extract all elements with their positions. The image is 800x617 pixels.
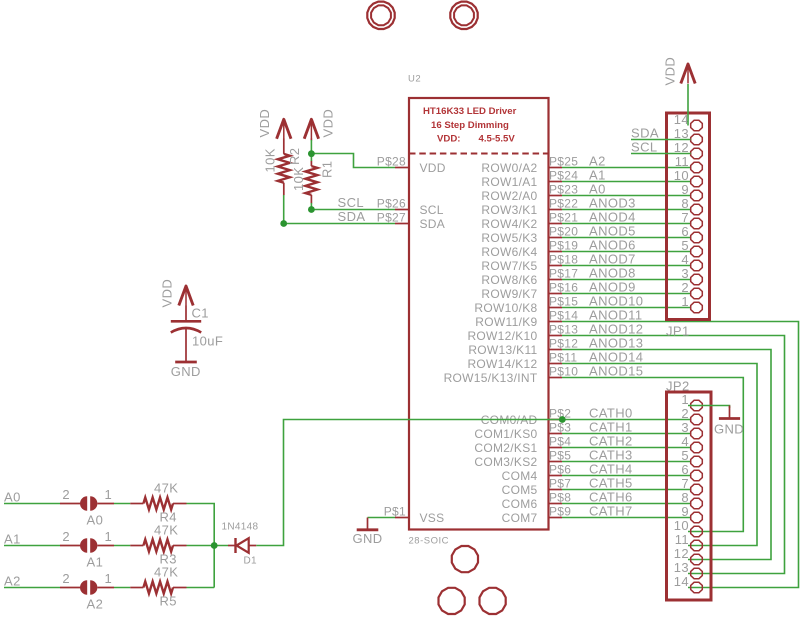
power symbol VDD (C1)	[179, 286, 193, 306]
JP2 pin 8 pad	[691, 498, 703, 508]
U2 pin P$12 stub	[549, 349, 563, 351]
U2 pin P$20 stub	[549, 237, 563, 239]
svg-text:P$16: P$16	[549, 280, 578, 294]
U2 pin P$3 stub	[549, 433, 563, 435]
wire A2 to JP1 pin 11	[562, 167, 691, 169]
svg-text:ROW3/K1: ROW3/K1	[481, 203, 537, 217]
JP1 pin 6 pad	[691, 232, 703, 242]
JP1 pin 8 pad	[691, 204, 703, 214]
svg-text:COM2/KS1: COM2/KS1	[474, 441, 537, 455]
wire ANOD5 to JP1 pin 6	[562, 237, 691, 239]
svg-text:SCL: SCL	[631, 139, 658, 154]
svg-text:VDD: VDD	[420, 161, 446, 175]
svg-text:ANOD3: ANOD3	[589, 195, 636, 210]
svg-text:1: 1	[105, 529, 113, 544]
svg-text:A0: A0	[4, 489, 21, 504]
svg-text:P$28: P$28	[377, 154, 406, 168]
svg-text:P$11: P$11	[549, 350, 577, 364]
wire JP2 pin 1 to GND	[688, 406, 730, 409]
svg-text:P$20: P$20	[549, 224, 578, 238]
svg-text:COM4: COM4	[502, 469, 538, 483]
svg-text:7: 7	[681, 476, 689, 491]
wire net A1	[4, 545, 60, 547]
U2 pin P$4 stub	[549, 447, 563, 449]
svg-text:6: 6	[681, 462, 689, 477]
U2 pin P$1 stub	[395, 517, 409, 519]
svg-text:COM6: COM6	[502, 497, 538, 511]
svg-text:P$8: P$8	[549, 490, 571, 504]
svg-text:P$6: P$6	[549, 462, 571, 476]
wire R2 bottom to SDA	[283, 195, 285, 224]
JP2 pin 5 pad	[691, 456, 703, 466]
svg-text:1: 1	[681, 294, 689, 309]
svg-text:SCL: SCL	[338, 195, 365, 210]
svg-text:1: 1	[681, 392, 689, 407]
U2 pin P$16 stub	[549, 293, 563, 295]
svg-text:P$26: P$26	[377, 196, 406, 210]
svg-text:ROW7/K5: ROW7/K5	[481, 259, 537, 273]
wire CATH4 to JP2 pin 6	[562, 475, 691, 477]
svg-text:47K: 47K	[154, 523, 178, 538]
svg-text:47K: 47K	[154, 481, 178, 496]
wire A0 to JP1 pin 9	[562, 195, 691, 197]
U2 pin P$24 stub	[549, 181, 563, 183]
svg-text:ANOD15: ANOD15	[589, 363, 643, 378]
resistor R5 47K	[130, 582, 186, 594]
U2 pin P$19 stub	[549, 251, 563, 253]
svg-text:P$4: P$4	[549, 434, 571, 448]
wire A1 to JP1 pin 10	[562, 181, 691, 183]
resistor R3 47K	[130, 540, 186, 552]
solder jumper A0	[60, 496, 114, 510]
svg-text:ROW9/K7: ROW9/K7	[481, 287, 537, 301]
JP2 pin 3 pad	[691, 428, 703, 438]
wire ANOD7 to JP1 pin 4	[562, 265, 691, 267]
svg-text:P$7: P$7	[549, 476, 571, 490]
svg-text:VDD: VDD	[663, 57, 678, 86]
mounting hole H1	[367, 2, 394, 29]
U2 pin P$9 stub	[549, 517, 563, 519]
wire ANOD10 to JP1 pin 1	[562, 307, 691, 309]
svg-text:COM1/KS0: COM1/KS0	[474, 427, 537, 441]
svg-text:ANOD10: ANOD10	[589, 293, 643, 308]
wire ANOD8 to JP1 pin 3	[562, 279, 691, 281]
wire SCL to JP1 pin 12	[631, 153, 691, 155]
svg-text:14: 14	[674, 112, 689, 127]
svg-text:P$25: P$25	[549, 154, 578, 168]
junction R1/VDD/P$28	[308, 150, 315, 157]
JP1 pin 14 pad	[691, 120, 703, 130]
svg-text:10: 10	[674, 168, 689, 183]
svg-text:7: 7	[681, 210, 689, 225]
svg-text:4: 4	[681, 252, 689, 267]
wire jumper to R3	[114, 545, 130, 547]
resistor R4 47K	[130, 498, 186, 510]
svg-text:A0: A0	[589, 181, 606, 196]
svg-text:ROW6/K4: ROW6/K4	[481, 245, 537, 259]
fiducial/hole H5	[480, 588, 506, 614]
op IC U2 HT16K33 body	[409, 98, 549, 530]
svg-text:VDD: VDD	[321, 109, 336, 138]
wire ANOD3 to JP1 pin 8	[562, 209, 691, 211]
wire R1 top to VDD	[310, 140, 312, 161]
fiducial/hole H3	[452, 546, 478, 572]
svg-text:ROW4/K2: ROW4/K2	[481, 217, 537, 231]
wire CATH2 to JP2 pin 4	[562, 447, 691, 449]
JP1 pin 2 pad	[691, 288, 703, 298]
JP2 pin 14 pad	[691, 582, 703, 592]
svg-text:P$21: P$21	[549, 210, 578, 224]
svg-text:28-SOIC: 28-SOIC	[409, 536, 449, 547]
JP1 pin 4 pad	[691, 260, 703, 270]
diode D1 1N4148	[228, 538, 256, 553]
svg-text:4: 4	[681, 434, 689, 449]
svg-text:A1: A1	[87, 555, 104, 570]
JP2 pin 13 pad	[691, 568, 703, 578]
svg-text:2: 2	[62, 529, 70, 544]
svg-text:P$14: P$14	[549, 308, 578, 322]
power symbol VDD (R1)	[304, 119, 318, 139]
wire VDD to JP1 pin 14	[687, 84, 689, 126]
wire ANOD6 to JP1 pin 5	[562, 251, 691, 253]
svg-text:CATH4: CATH4	[589, 461, 633, 476]
junction A1 bus	[211, 542, 218, 549]
svg-text:2: 2	[681, 406, 689, 421]
svg-text:8: 8	[681, 196, 689, 211]
svg-text:1: 1	[105, 571, 113, 586]
svg-text:ANOD9: ANOD9	[589, 279, 636, 294]
svg-text:CATH5: CATH5	[589, 475, 633, 490]
wire P$1 to GND	[368, 517, 396, 519]
solder jumper A1	[60, 538, 114, 552]
svg-text:HT16K33 LED Driver: HT16K33 LED Driver	[423, 106, 517, 117]
U2 pin P$18 stub	[549, 265, 563, 267]
JP2 pin 11 pad	[691, 540, 703, 550]
ground symbol GND (C1)	[175, 361, 197, 364]
svg-text:GND: GND	[714, 422, 744, 437]
svg-text:ROW10/K8: ROW10/K8	[474, 301, 537, 315]
svg-text:ANOD6: ANOD6	[589, 237, 636, 252]
svg-text:P$10: P$10	[549, 364, 578, 378]
U2 pin P$15 stub	[549, 307, 563, 309]
wire ANOD4 to JP1 pin 7	[562, 223, 691, 225]
U2 pin P$28 stub	[395, 167, 409, 169]
svg-text:SCL: SCL	[420, 203, 444, 217]
U2 pin P$25 stub	[549, 167, 563, 169]
capacitor C1 10uF	[171, 306, 201, 362]
svg-text:1: 1	[105, 487, 113, 502]
wire ANOD14 to JP2 pin 11	[562, 364, 757, 546]
JP1 pin 1 pad	[691, 302, 703, 312]
svg-text:P$1: P$1	[384, 504, 406, 518]
svg-text:GND: GND	[171, 364, 201, 379]
wire R1 bottom to SCL	[310, 203, 312, 210]
svg-text:ANOD11: ANOD11	[589, 307, 642, 322]
svg-text:ROW2/A0: ROW2/A0	[481, 189, 537, 203]
JP1 pin 9 pad	[691, 190, 703, 200]
resistor R1 10K	[305, 139, 317, 204]
junction COM0/AD pin	[559, 416, 566, 423]
JP1 pin 7 pad	[691, 218, 703, 228]
wire D1 to COM0/AD	[256, 420, 562, 546]
svg-text:CATH2: CATH2	[589, 433, 633, 448]
svg-text:6: 6	[681, 224, 689, 239]
svg-text:GND: GND	[352, 531, 382, 546]
svg-text:P$5: P$5	[549, 448, 571, 462]
svg-text:ANOD14: ANOD14	[589, 349, 643, 364]
svg-text:VDD: VDD	[160, 279, 175, 308]
svg-text:A2: A2	[589, 153, 606, 168]
svg-text:ANOD13: ANOD13	[589, 335, 643, 350]
mounting hole H2	[450, 2, 477, 29]
svg-text:P$13: P$13	[549, 322, 578, 336]
wire SDA net	[284, 223, 395, 225]
svg-text:CATH7: CATH7	[589, 503, 633, 518]
U2 pin P$5 stub	[549, 461, 563, 463]
JP2 pin 12 pad	[691, 554, 703, 564]
fiducial/hole H4	[439, 588, 465, 614]
svg-text:P$3: P$3	[549, 420, 571, 434]
wire ANOD11 to JP2 pin 14	[562, 322, 799, 588]
svg-text:ANOD4: ANOD4	[589, 209, 636, 224]
ground symbol GND (JP2)	[729, 406, 731, 419]
connector JP2 body	[667, 392, 712, 600]
U2 pin P$23 stub	[549, 195, 563, 197]
svg-text:R2: R2	[287, 148, 302, 165]
svg-text:CATH0: CATH0	[589, 405, 633, 420]
wire CATH7 to JP2 pin 9	[562, 517, 691, 519]
JP2 pin 6 pad	[691, 470, 703, 480]
svg-text:A1: A1	[589, 167, 606, 182]
svg-text:C1: C1	[192, 306, 209, 321]
power symbol VDD (JP1)	[681, 64, 695, 84]
JP2 pin 2 pad	[691, 414, 703, 424]
svg-text:9: 9	[681, 182, 689, 197]
ground symbol GND (P$1)	[367, 518, 369, 530]
wire ANOD13 to JP2 pin 12	[562, 350, 771, 560]
svg-text:SDA: SDA	[338, 209, 366, 224]
svg-text:P$12: P$12	[549, 336, 578, 350]
wire jumper to R4	[114, 503, 130, 505]
svg-text:16 Step Dimming: 16 Step Dimming	[431, 120, 509, 131]
JP2 pin 4 pad	[691, 442, 703, 452]
svg-text:ROW13/K11: ROW13/K11	[468, 343, 537, 357]
connector JP1 body	[667, 113, 710, 320]
svg-text:P$18: P$18	[549, 252, 578, 266]
U2 pin P$2 stub	[549, 419, 563, 421]
svg-text:COM5: COM5	[502, 483, 538, 497]
svg-text:D1: D1	[244, 556, 258, 567]
svg-text:5: 5	[681, 238, 689, 253]
svg-text:ROW12/K10: ROW12/K10	[467, 329, 537, 343]
wire CATH1 to JP2 pin 3	[562, 433, 691, 435]
U2 pin P$7 stub	[549, 489, 563, 491]
svg-text:4.5-5.5V: 4.5-5.5V	[479, 133, 516, 144]
svg-text:CATH1: CATH1	[589, 419, 633, 434]
svg-text:P$17: P$17	[549, 266, 578, 280]
wire jumper to R5	[114, 587, 130, 589]
U2 pin P$22 stub	[549, 209, 563, 211]
U2 pin P$14 stub	[549, 321, 563, 323]
U2 pin P$6 stub	[549, 475, 563, 477]
junction R2/SDA	[280, 220, 287, 227]
svg-text:A1: A1	[4, 531, 21, 546]
svg-text:1N4148: 1N4148	[222, 522, 259, 533]
svg-text:R1: R1	[320, 161, 335, 178]
svg-text:5: 5	[681, 448, 689, 463]
svg-text:9: 9	[681, 504, 689, 519]
solder jumper A2	[60, 580, 114, 594]
svg-text:2: 2	[681, 280, 689, 295]
svg-text:VDD:: VDD:	[437, 133, 460, 144]
svg-text:A2: A2	[87, 597, 104, 612]
svg-text:10K: 10K	[291, 167, 306, 191]
svg-text:2: 2	[62, 487, 70, 502]
JP1 pin 3 pad	[691, 274, 703, 284]
svg-text:P$24: P$24	[549, 168, 578, 182]
junction R1/SCL	[308, 206, 315, 213]
JP1 pin 5 pad	[691, 246, 703, 256]
svg-text:P$15: P$15	[549, 294, 578, 308]
resistor R2 10K	[278, 139, 290, 196]
svg-text:ANOD7: ANOD7	[589, 251, 636, 266]
wire net A0	[4, 503, 60, 505]
svg-text:ANOD5: ANOD5	[589, 223, 636, 238]
svg-text:ANOD12: ANOD12	[589, 321, 643, 336]
svg-text:ROW5/K3: ROW5/K3	[481, 231, 537, 245]
U2 pin P$11 stub	[549, 363, 563, 365]
JP1 pin 13 pad	[691, 134, 703, 144]
svg-text:A2: A2	[4, 573, 21, 588]
wire SCL net	[311, 209, 395, 211]
wire ANOD12 to JP2 pin 13	[562, 336, 785, 574]
U2 pin P$26 stub	[395, 209, 409, 211]
svg-text:COM7: COM7	[502, 511, 538, 525]
svg-text:P$19: P$19	[549, 238, 578, 252]
svg-text:3: 3	[681, 420, 689, 435]
U2 pin P$8 stub	[549, 503, 563, 505]
svg-text:ROW8/K6: ROW8/K6	[481, 273, 537, 287]
svg-text:A0: A0	[87, 513, 104, 528]
svg-text:P$23: P$23	[549, 182, 578, 196]
svg-text:2: 2	[62, 571, 70, 586]
wire R4 out to bus	[187, 504, 215, 588]
wire CATH0 to JP2 pin 2	[562, 419, 691, 421]
svg-text:CATH3: CATH3	[589, 447, 633, 462]
svg-text:14: 14	[674, 574, 689, 589]
U2 pin P$27 stub	[395, 223, 409, 225]
JP1 pin 10 pad	[691, 176, 703, 186]
svg-text:U2: U2	[408, 74, 421, 85]
U2 pin P$17 stub	[549, 279, 563, 281]
svg-text:11: 11	[675, 154, 689, 169]
svg-text:VDD: VDD	[257, 109, 272, 138]
wire CATH3 to JP2 pin 5	[562, 461, 691, 463]
svg-text:P$22: P$22	[549, 196, 578, 210]
svg-text:8: 8	[681, 490, 689, 505]
svg-text:SDA: SDA	[420, 217, 446, 231]
wire R5 out to bus	[187, 587, 215, 589]
JP2 pin 7 pad	[691, 484, 703, 494]
wire ANOD9 to JP1 pin 2	[562, 293, 691, 295]
svg-text:CATH6: CATH6	[589, 489, 633, 504]
svg-text:10: 10	[674, 518, 689, 533]
JP1 pin 11 pad	[691, 162, 703, 172]
wire R3 out to junction	[187, 545, 229, 547]
svg-text:11: 11	[675, 532, 689, 547]
svg-text:ROW11/K9: ROW11/K9	[475, 315, 537, 329]
svg-text:ROW1/A1: ROW1/A1	[481, 175, 537, 189]
svg-text:ROW15/K13/INT: ROW15/K13/INT	[444, 371, 538, 385]
svg-text:JP1: JP1	[666, 324, 690, 339]
svg-text:COM3/KS2: COM3/KS2	[474, 455, 537, 469]
svg-text:P$9: P$9	[549, 504, 571, 518]
wire net A2	[4, 587, 60, 589]
power symbol VDD (R2)	[277, 119, 291, 139]
JP2 pin 10 pad	[691, 526, 703, 536]
wire R1 junction to P$28	[311, 154, 395, 168]
svg-text:ROW14/K12: ROW14/K12	[467, 357, 537, 371]
svg-text:SDA: SDA	[631, 125, 659, 140]
wire CATH6 to JP2 pin 8	[562, 503, 691, 505]
svg-text:47K: 47K	[154, 565, 178, 580]
svg-text:12: 12	[674, 546, 689, 561]
svg-text:R5: R5	[160, 594, 177, 609]
svg-text:13: 13	[674, 560, 689, 575]
svg-text:10K: 10K	[263, 148, 278, 172]
svg-text:10uF: 10uF	[192, 334, 223, 349]
U2 pin P$21 stub	[549, 223, 563, 225]
JP1 pin 12 pad	[691, 148, 703, 158]
JP2 pin 1 pad	[691, 400, 703, 410]
svg-text:P$27: P$27	[377, 210, 406, 224]
svg-text:VSS: VSS	[420, 511, 445, 525]
svg-text:ROW0/A2: ROW0/A2	[481, 161, 537, 175]
JP2 pin 9 pad	[691, 512, 703, 522]
U2 value text	[423, 106, 517, 145]
svg-text:ANOD8: ANOD8	[589, 265, 636, 280]
wire ANOD15 to JP2 pin 10	[562, 378, 743, 532]
wire SDA to JP1 pin 13	[631, 139, 691, 141]
wire CATH5 to JP2 pin 7	[562, 489, 691, 491]
U2 pin P$13 stub	[549, 335, 563, 337]
svg-text:3: 3	[681, 266, 689, 281]
U2 pin P$10 stub	[549, 377, 563, 379]
